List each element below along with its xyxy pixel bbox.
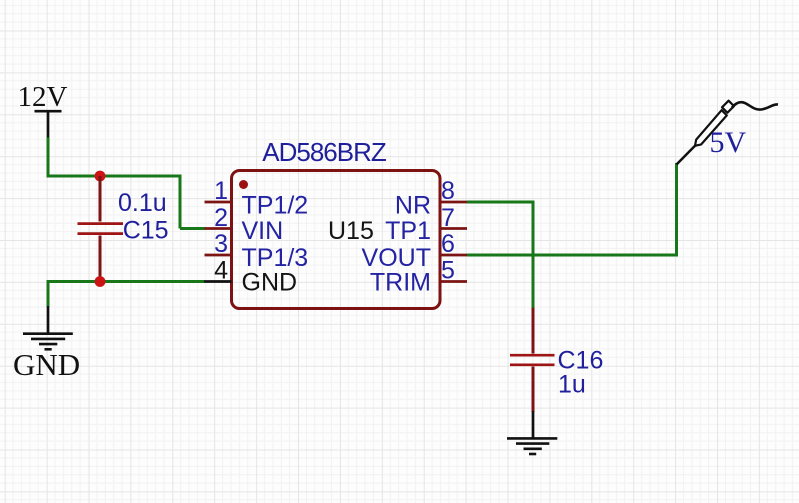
pin 1 marker dot [239, 180, 248, 189]
svg-text:AD586BRZ: AD586BRZ [262, 137, 387, 167]
pin 3 TP1/3 [205, 230, 309, 272]
wire VOUT [467, 254, 678, 257]
wire GND row [48, 280, 204, 283]
svg-text:3: 3 [214, 230, 228, 258]
svg-text:1: 1 [214, 177, 228, 205]
IC U15 body [232, 171, 441, 309]
pin 1 TP1/2 [205, 177, 309, 219]
pin 7 TP1 [385, 204, 467, 245]
wire 12V stem [47, 138, 50, 177]
capacitor C16 [510, 308, 555, 413]
svg-text:TP1/2: TP1/2 [242, 191, 309, 219]
svg-text:VIN: VIN [242, 217, 284, 245]
wire down to C16 [532, 201, 535, 308]
wire 12V horizontal [47, 175, 182, 178]
svg-text:5V: 5V [710, 126, 747, 159]
svg-text:12V: 12V [18, 81, 68, 113]
wire down to ground [47, 280, 50, 307]
svg-text:NR: NR [395, 191, 431, 219]
svg-text:TRIM: TRIM [370, 269, 431, 297]
probe to 5V [677, 101, 779, 165]
pin 2 VIN [205, 204, 284, 245]
junction at C15 bottom [95, 276, 106, 287]
wire NR to C16 [467, 201, 533, 204]
svg-text:TP1: TP1 [385, 217, 431, 245]
pin 8 NR [395, 177, 467, 219]
svg-text:8: 8 [441, 177, 455, 205]
ground symbol under C16 [507, 411, 557, 454]
svg-text:7: 7 [441, 204, 455, 232]
pin 5 TRIM [370, 257, 467, 297]
svg-text:4: 4 [214, 257, 228, 285]
power flag 12V bar [35, 111, 62, 138]
svg-text:GND: GND [13, 347, 80, 382]
pin 6 VOUT [362, 230, 467, 272]
capacitor C15 [78, 176, 124, 282]
wire into pin 2 [180, 227, 205, 230]
svg-text:C15: C15 [123, 217, 169, 245]
svg-text:0.1u: 0.1u [118, 189, 167, 217]
junction at C15 top [95, 171, 106, 182]
svg-text:U15: U15 [328, 217, 374, 245]
wire up to probe [675, 163, 678, 257]
pin 4 GND [204, 257, 297, 297]
svg-text:2: 2 [214, 204, 228, 232]
svg-text:6: 6 [441, 230, 455, 258]
ground symbol left [23, 306, 73, 349]
wire down to VIN [179, 175, 182, 229]
svg-text:GND: GND [242, 268, 298, 296]
svg-text:1u: 1u [558, 371, 586, 399]
svg-text:5: 5 [441, 257, 455, 285]
